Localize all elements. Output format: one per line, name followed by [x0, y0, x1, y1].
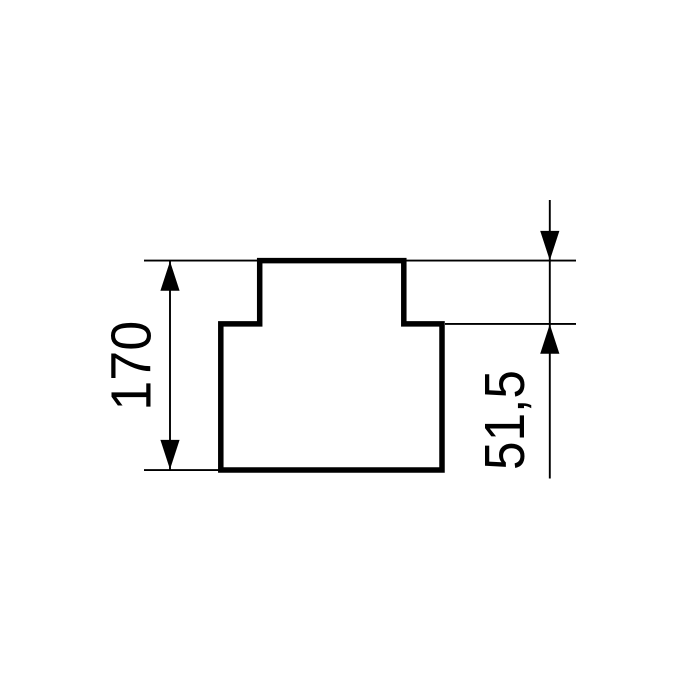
arrowhead down (51,5 top, outside) — [540, 231, 559, 261]
part outline (stepped profile) — [221, 261, 442, 470]
svg-text:51,5: 51,5 — [473, 370, 537, 470]
extension line bottom-left — [144, 469, 224, 471]
arrowhead up (51,5 bottom, outside) — [540, 324, 559, 354]
dimension line 170 — [169, 261, 171, 470]
arrowhead up (170 top) — [160, 261, 179, 291]
extension line top-left — [144, 260, 262, 262]
extension line top-right — [404, 260, 576, 262]
extension line mid-right — [445, 323, 576, 325]
dimension line 51,5 (tails above and below) — [549, 200, 551, 479]
svg-text:170: 170 — [100, 321, 164, 411]
arrowhead down (170 bottom) — [160, 440, 179, 470]
